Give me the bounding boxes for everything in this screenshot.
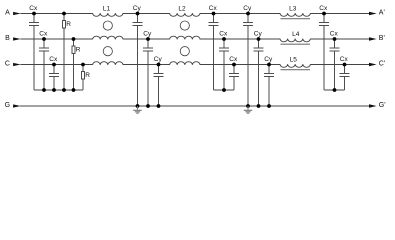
- node bus1 R A junction: [62, 88, 66, 92]
- wire A segment 3 (L2 to output choke): [200, 13, 280, 15]
- inductor L2 core circle (A-B): [180, 21, 189, 30]
- svg-text:L3: L3: [289, 6, 297, 13]
- wire A segment 1 (input to L1): [20, 13, 92, 15]
- node bus3 Cx B junction: [333, 88, 337, 92]
- node Cx B middle junction: [222, 37, 226, 41]
- port B' (output terminal): [369, 35, 385, 42]
- resistor R (B phase bleeder): [72, 39, 81, 90]
- capacitor Cx (C phase, output stage): [340, 56, 350, 90]
- inductor L5 label: [290, 57, 298, 64]
- capacitor Cx (B phase, middle stage): [219, 30, 229, 90]
- node Cy A line junction (stage 2): [246, 12, 250, 16]
- inductor L1 winding C: [93, 62, 123, 65]
- wire C segment 2 (L1 to L2): [123, 64, 170, 66]
- inductor L2 winding C: [170, 62, 200, 65]
- capacitor Cy (A phase to ground, stage 2): [243, 5, 253, 106]
- svg-text:Cy: Cy: [264, 56, 273, 63]
- svg-text:Cy: Cy: [133, 5, 142, 12]
- svg-text:Cy: Cy: [243, 5, 252, 12]
- port A (input terminal): [5, 10, 21, 17]
- capacitor Cx (A phase, middle stage): [209, 5, 219, 90]
- svg-text:R: R: [85, 72, 90, 79]
- svg-text:L1: L1: [103, 6, 111, 13]
- wire C segment 4 (output choke to port): [310, 64, 369, 66]
- ground symbol (stage 1): [133, 106, 142, 113]
- inductor L2 label: [178, 6, 186, 13]
- node Cy B ground junction (stage 1): [146, 104, 150, 108]
- port A' (output terminal): [369, 10, 385, 17]
- svg-text:B': B': [379, 35, 385, 42]
- svg-text:Cx: Cx: [229, 56, 238, 63]
- capacitor Cy (B phase to ground, stage 1): [143, 30, 153, 106]
- svg-text:L5: L5: [290, 57, 298, 64]
- svg-text:C': C': [379, 61, 385, 68]
- port G (input terminal): [5, 102, 21, 109]
- node Cx A output junction: [322, 12, 326, 16]
- inductor L4 winding: [280, 39, 310, 42]
- svg-text:Cx: Cx: [209, 5, 218, 12]
- node bus2 Cx B junction: [222, 88, 226, 92]
- node Cy B line junction (stage 1): [146, 37, 150, 41]
- svg-text:Cy: Cy: [254, 30, 263, 37]
- node Cx C output junction: [343, 63, 347, 67]
- wire A segment 4 (output choke to port): [310, 13, 369, 15]
- inductor L5 core bar: [281, 69, 311, 71]
- inductor L3 label: [289, 6, 297, 13]
- svg-text:A: A: [5, 10, 10, 17]
- svg-text:C: C: [5, 61, 10, 68]
- node Cx C input junction: [52, 63, 56, 67]
- svg-text:L2: L2: [178, 6, 186, 13]
- svg-text:G': G': [379, 102, 386, 109]
- node R C junction: [81, 63, 85, 67]
- svg-text:Cx: Cx: [39, 30, 48, 37]
- node Cx A middle junction: [212, 12, 216, 16]
- node R A junction: [62, 12, 66, 16]
- wire star-point bus (input stage): [34, 89, 83, 91]
- svg-text:Cy: Cy: [154, 56, 163, 63]
- capacitor Cx (A phase, output stage): [319, 5, 329, 90]
- resistor R (C phase bleeder): [82, 65, 91, 91]
- inductor L5 winding: [280, 64, 310, 67]
- capacitor Cx (C phase, input stage): [49, 56, 59, 90]
- port C' (output terminal): [369, 61, 385, 68]
- svg-text:G: G: [5, 102, 10, 109]
- node bus1 R B junction: [72, 88, 76, 92]
- wire B segment 3 (L2 to output choke): [200, 38, 280, 40]
- inductor L3 winding: [280, 13, 310, 16]
- wire A segment 2 (L1 to L2): [123, 13, 170, 15]
- svg-text:Cx: Cx: [49, 56, 58, 63]
- svg-text:L4: L4: [292, 31, 300, 38]
- inductor L1 core circle (A-B): [103, 21, 112, 30]
- capacitor Cy (B phase to ground, stage 2): [254, 30, 264, 106]
- node Cx C middle junction: [232, 63, 236, 67]
- node Cy C ground junction (stage 2): [267, 104, 271, 108]
- inductor L4 core bar: [281, 43, 311, 45]
- node Cy B line junction (stage 2): [257, 37, 261, 41]
- wire star-point bus (middle stage): [214, 89, 235, 91]
- inductor L1 core circle (B-C): [103, 47, 112, 56]
- wire B segment 2 (L1 to L2): [123, 38, 170, 40]
- capacitor Cy (C phase to ground, stage 2): [264, 56, 274, 106]
- svg-text:Cy: Cy: [143, 30, 152, 37]
- svg-text:Cx: Cx: [29, 5, 38, 12]
- capacitor Cx (A phase, input stage): [29, 5, 39, 90]
- inductor L2 core circle (B-C): [180, 47, 189, 56]
- node Cy A line junction (stage 1): [136, 12, 140, 16]
- node Cx A input junction: [32, 12, 36, 16]
- svg-text:Cx: Cx: [330, 30, 339, 37]
- node Cx B output junction: [333, 37, 337, 41]
- svg-text:Cx: Cx: [319, 5, 328, 12]
- svg-text:R: R: [66, 21, 71, 28]
- capacitor Cy (A phase to ground, stage 1): [133, 5, 143, 106]
- capacitor Cx (B phase, output stage): [330, 30, 340, 90]
- inductor L3 core bar: [281, 18, 311, 20]
- node Cy B ground junction (stage 2): [257, 104, 261, 108]
- wire G (ground line): [20, 105, 369, 107]
- port G' (output terminal): [369, 102, 386, 109]
- svg-text:R: R: [76, 47, 81, 54]
- inductor L2 winding B: [170, 36, 200, 39]
- wire C segment 1 (input to L1): [20, 64, 92, 66]
- inductor L2 winding A: [170, 13, 200, 16]
- inductor L1 winding A: [93, 13, 123, 16]
- node R B junction: [72, 37, 76, 41]
- svg-text:Cx: Cx: [340, 56, 349, 63]
- inductor L1 label: [103, 6, 111, 13]
- node Cy C ground junction (stage 1): [157, 104, 161, 108]
- port C (input terminal): [5, 61, 21, 68]
- svg-text:Cx: Cx: [219, 30, 228, 37]
- inductor L4 label: [292, 31, 300, 38]
- node Cy C line junction (stage 2): [267, 63, 271, 67]
- node Cy A ground junction (stage 1): [136, 104, 140, 108]
- node Cx B input junction: [42, 37, 46, 41]
- wire star-point bus (output stage): [324, 89, 345, 91]
- node bus1 Cx B junction: [42, 88, 46, 92]
- capacitor Cx (B phase, input stage): [39, 30, 49, 90]
- svg-text:A': A': [379, 10, 385, 17]
- capacitor Cy (C phase to ground, stage 1): [154, 56, 164, 106]
- node Cy C line junction (stage 1): [157, 63, 161, 67]
- resistor R (A phase bleeder): [63, 14, 72, 91]
- wire B segment 1 (input to L1): [20, 38, 92, 40]
- wire B segment 4 (output choke to port): [310, 38, 369, 40]
- port B (input terminal): [5, 35, 21, 42]
- svg-text:B: B: [5, 35, 10, 42]
- node bus1 Cx C junction: [52, 88, 56, 92]
- wire C segment 3 (L2 to output choke): [200, 64, 280, 66]
- inductor L1 winding B: [93, 36, 123, 39]
- node Cy A ground junction (stage 2): [246, 104, 250, 108]
- capacitor Cx (C phase, middle stage): [229, 56, 239, 90]
- ground symbol (stage 2): [244, 106, 253, 113]
